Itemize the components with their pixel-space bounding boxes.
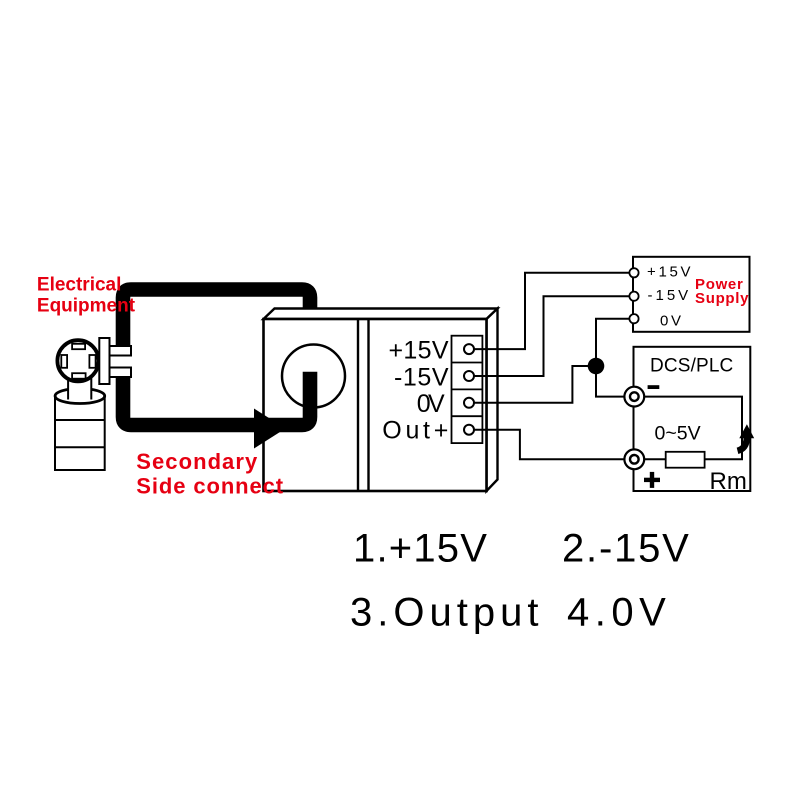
sensor box top face [264,309,498,320]
wire +15V to power supply [473,273,629,349]
head slot top [72,344,85,349]
svg-text:Side connect: Side connect [136,473,284,498]
sensor box right face [487,309,498,492]
wire primary top segment [123,290,310,351]
wire 0V sensor to node [473,366,592,403]
sensor pin Out+ [464,425,474,435]
cylinder band line 2 [55,446,105,448]
svg-text:-15V: -15V [648,287,692,304]
svg-text:4.0V: 4.0V [567,591,671,635]
plus sign [644,478,660,482]
svg-text:Secondary: Secondary [136,449,258,474]
terminal block divider 2 [452,388,483,390]
svg-text:0V: 0V [417,390,445,418]
equipment cylinder body [55,396,105,470]
DCS/PLC box [634,347,751,491]
sensor box front face [264,319,487,491]
wire -15V to power supply [473,296,629,376]
svg-text:0~5V: 0~5V [655,423,701,445]
svg-text:3.Output: 3.Output [350,591,543,635]
current direction arrowhead [254,409,286,449]
sensor divider line right [367,319,369,491]
svg-text:Rm: Rm [710,468,747,495]
terminal block divider 1 [452,362,483,364]
terminal tab top [110,346,132,356]
minus sign [648,385,660,389]
current arrow curved [738,438,747,451]
svg-text:1.+15V: 1.+15V [353,526,488,570]
svg-text:0V: 0V [660,313,684,330]
svg-text:+15V: +15V [389,337,449,365]
wire Out+ to plus terminal [473,430,625,460]
resistor Rm body [666,452,705,468]
equipment head circle [57,340,98,381]
cylinder band line 1 [55,419,105,421]
power terminal +15V [629,268,638,277]
junction node [588,358,605,375]
svg-text:2.-15V: 2.-15V [562,526,691,570]
sensor pin -15V [464,371,474,381]
svg-text:+15V: +15V [647,264,693,281]
power terminal 0V [629,314,638,323]
head slot left [61,355,67,368]
head slot bottom [72,373,86,379]
svg-text:Out+: Out+ [382,417,448,445]
power terminal -15V [629,292,638,301]
svg-text:Equipment: Equipment [37,296,136,317]
sensor pin 0V [464,398,474,408]
sensor terminal block [452,336,483,443]
wire primary bottom segment [123,372,310,425]
head slot right [89,355,95,368]
DCS internal wire [644,397,742,460]
equipment bushing neck [68,376,91,400]
sensor divider line left [357,319,359,491]
wire 0V power supply to minus terminal [596,319,629,397]
equipment flange plate [99,338,109,384]
power supply box [633,257,750,332]
sensor pin +15V [464,344,474,354]
svg-text:Supply: Supply [695,290,749,307]
cylinder top ellipse [55,389,105,404]
svg-text:DCS/PLC: DCS/PLC [650,356,733,377]
plus terminal DCS [624,449,644,469]
svg-text:-15V: -15V [394,363,449,391]
terminal block divider 3 [452,415,483,417]
minus terminal DCS [624,387,644,407]
sensor aperture circle [282,345,345,408]
svg-text:Electrical: Electrical [37,274,122,295]
terminal tab bottom [110,368,132,378]
